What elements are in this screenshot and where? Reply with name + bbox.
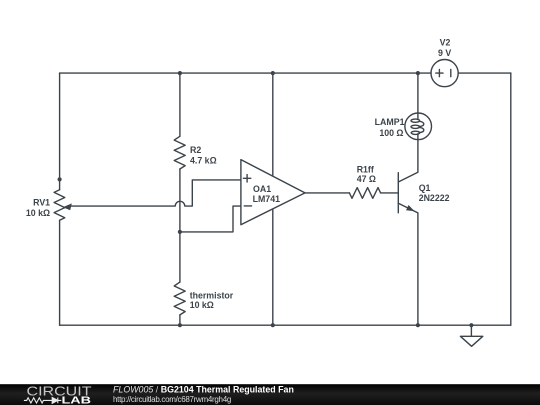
node junction minus input tap: [178, 230, 182, 234]
lamp LAMP1 filament coil: [417, 113, 419, 119]
wire left rail upper: [59, 73, 61, 190]
resistor R2: [174, 136, 185, 169]
svg-text:10 kΩ: 10 kΩ: [26, 208, 50, 218]
node junction top of op-amp rail: [271, 71, 275, 75]
node junction ground tap: [469, 323, 473, 327]
transistor Q1 collector: [398, 140, 418, 182]
battery V2 minus bar: [450, 70, 452, 77]
svg-text:http://circuitlab.com/c687rwm4: http://circuitlab.com/c687rwm4rgh4g: [113, 395, 231, 404]
wiper arrow of RV1: [63, 203, 72, 210]
node junction top of R2 rail: [178, 71, 182, 75]
wire middle rail bottom: [179, 315, 181, 325]
wire op-amp rail (behind op-amp): [272, 73, 274, 325]
svg-text:LAB: LAB: [62, 395, 92, 405]
footer bar: [0, 384, 540, 405]
node junction op-amp rail bottom: [271, 323, 275, 327]
wire middle rail top (R2 lead): [179, 73, 181, 136]
lamp LAMP1 top lead: [417, 73, 419, 113]
logo doodle wire-resistor-diode: [24, 398, 61, 404]
node junction emitter bottom: [416, 323, 420, 327]
op-amp minus symbol: [244, 205, 251, 207]
svg-text:OA1: OA1: [253, 184, 271, 194]
potentiometer RV1: [54, 190, 65, 221]
node junction lamp branch top: [416, 71, 420, 75]
op-amp plus symbol: [243, 175, 250, 182]
svg-text:10 kΩ: 10 kΩ: [190, 300, 214, 310]
wire R1ff to Q1 base: [381, 192, 399, 194]
svg-text:FLOW005 / BG2104 Thermal Regul: FLOW005 / BG2104 Thermal Regulated Fan: [113, 385, 294, 395]
svg-text:4.7 kΩ: 4.7 kΩ: [190, 156, 217, 166]
lamp LAMP1 body circle: [405, 113, 432, 140]
svg-text:R2: R2: [190, 145, 201, 155]
svg-text:Q1: Q1: [419, 183, 431, 193]
wire middle rail between R2 and thermistor: [179, 169, 181, 282]
wire bottom rail: [60, 324, 511, 326]
wire RV1 wiper to op-amp plus input (with hop over middle rail): [68, 180, 241, 206]
node junction thermistor bottom: [178, 323, 182, 327]
op-amp OA1 body: [241, 160, 305, 225]
wire top rail right of battery: [458, 72, 511, 74]
svg-text:thermistor: thermistor: [190, 290, 234, 300]
wire minus input to middle rail junction: [180, 206, 241, 232]
svg-text:2N2222: 2N2222: [419, 193, 450, 203]
resistor R1ff: [349, 188, 380, 199]
svg-text:LM741: LM741: [253, 194, 280, 204]
battery V2 plus sign: [436, 70, 443, 77]
wire left rail lower: [59, 220, 61, 325]
transistor Q1 emitter: [398, 203, 418, 325]
svg-text:47 Ω: 47 Ω: [357, 174, 376, 184]
wire top rail left of battery: [60, 72, 431, 74]
svg-text:RV1: RV1: [33, 198, 50, 208]
svg-text:9 V: 9 V: [438, 48, 451, 58]
svg-text:V2: V2: [440, 37, 451, 47]
thermistor RTH: [174, 282, 185, 315]
wire op-amp output: [305, 192, 349, 194]
battery V2 circle: [431, 60, 458, 87]
svg-text:100 Ω: 100 Ω: [379, 128, 403, 138]
svg-text:LAMP1: LAMP1: [375, 117, 405, 127]
ground symbol: [460, 325, 482, 346]
transistor Q1 base bar: [397, 173, 399, 213]
transistor Q1 emitter arrow: [406, 205, 415, 211]
node junction RV1 top pin: [58, 177, 62, 181]
wire right rail: [510, 73, 512, 325]
